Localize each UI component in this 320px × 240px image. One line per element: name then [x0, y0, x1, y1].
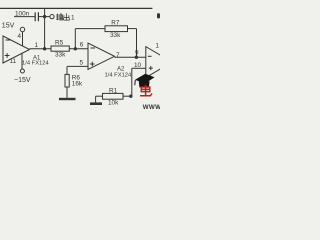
- svg-text:1: 1: [156, 43, 160, 50]
- svg-text:100n: 100n: [15, 10, 30, 17]
- svg-text:33k: 33k: [110, 32, 121, 39]
- svg-text:5: 5: [80, 60, 84, 67]
- svg-text:4: 4: [18, 33, 22, 40]
- svg-text:16k: 16k: [72, 81, 83, 88]
- svg-text:R1: R1: [109, 87, 118, 94]
- svg-text:7: 7: [116, 52, 120, 59]
- svg-text:R7: R7: [111, 19, 120, 26]
- svg-text:6: 6: [80, 41, 84, 48]
- svg-text:33k: 33k: [55, 52, 66, 59]
- svg-text:9: 9: [135, 50, 139, 57]
- svg-text:R5: R5: [55, 40, 64, 47]
- svg-text:10k: 10k: [108, 100, 119, 107]
- svg-text:−15V: −15V: [14, 77, 31, 84]
- svg-text:15V: 15V: [2, 22, 15, 29]
- svg-text:WWW: WWW: [143, 104, 160, 110]
- svg-text:1/4 FX124: 1/4 FX124: [22, 61, 50, 67]
- svg-text:11: 11: [10, 58, 17, 65]
- svg-text:1: 1: [71, 15, 75, 22]
- svg-text:10: 10: [134, 62, 142, 69]
- svg-text:1: 1: [35, 42, 39, 49]
- svg-text:1/4 FX124: 1/4 FX124: [105, 72, 133, 78]
